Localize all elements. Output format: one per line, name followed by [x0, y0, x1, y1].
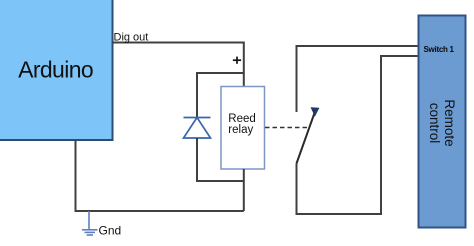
diode D1	[184, 118, 211, 139]
wire switch top terminal	[297, 46, 419, 112]
wire switch bottom terminal	[297, 56, 419, 214]
wire diode branch top	[197, 73, 244, 117]
svg-text:Dig out: Dig out	[114, 32, 149, 44]
Arduino block	[0, 0, 113, 140]
relay U1 label	[228, 113, 256, 136]
node + label	[233, 57, 241, 64]
switch S1 blade	[297, 113, 315, 164]
Remote control label	[427, 99, 457, 146]
wire diode branch bottom	[197, 138, 244, 181]
wire relay bottom	[243, 169, 245, 211]
svg-text:control: control	[427, 103, 442, 144]
dashed actuation link	[265, 127, 308, 129]
switch S1 arrowhead	[311, 107, 320, 116]
svg-text:Remote: Remote	[442, 99, 457, 146]
svg-text:Arduino: Arduino	[18, 57, 94, 83]
svg-text:Gnd: Gnd	[99, 224, 122, 238]
svg-text:relay: relay	[228, 124, 253, 136]
wire Dig out net	[113, 43, 244, 87]
ground symbol	[82, 211, 98, 235]
wire ground net	[76, 140, 244, 211]
relay U1 box	[221, 87, 265, 170]
Remote control block	[419, 16, 466, 228]
svg-text:Switch 1: Switch 1	[424, 45, 455, 54]
